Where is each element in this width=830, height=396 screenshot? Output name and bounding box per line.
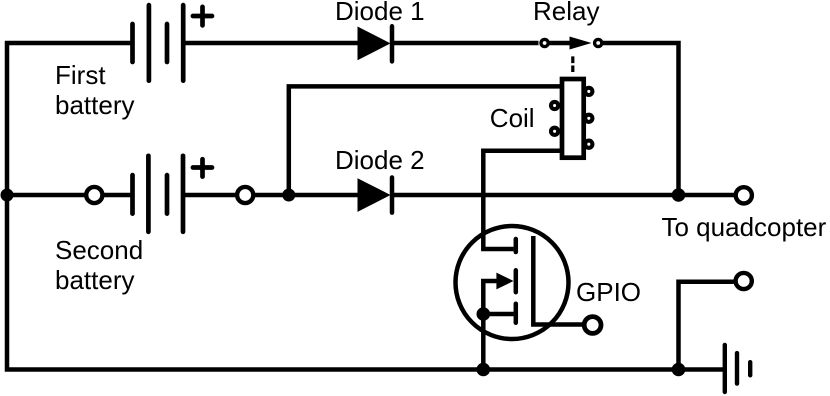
wire: lower right terminal branch <box>679 282 734 370</box>
svg-text:battery: battery <box>55 265 135 295</box>
wire: battery B2 to terminal circle <box>185 193 236 198</box>
relay switch contact left <box>541 39 548 46</box>
wire: terminal to diode D2 <box>255 193 358 198</box>
wire: battery B1 to diode D1 <box>185 41 358 46</box>
battery B2 (Second battery) <box>133 156 213 232</box>
svg-text:First: First <box>55 60 106 90</box>
svg-text:To quadcopter: To quadcopter <box>662 212 827 242</box>
terminal circle GPIO <box>584 317 601 334</box>
wire: branch up from node to coil top <box>289 86 560 195</box>
node: junction dot output <box>672 188 686 202</box>
wire: node to battery B2 terminal circle <box>7 193 85 198</box>
svg-text:Relay: Relay <box>533 0 599 26</box>
terminal circle lower right <box>736 273 752 289</box>
node: junction dot on bottom rail <box>477 363 491 377</box>
svg-text:Diode 1: Diode 1 <box>335 0 425 26</box>
svg-text:Coil: Coil <box>490 103 535 133</box>
svg-text:Second: Second <box>55 235 143 265</box>
wire: relay to right vertical down to node <box>603 43 679 195</box>
relay switch contact right <box>595 39 602 46</box>
wire: diode D2 to output node <box>392 193 734 198</box>
terminal circle left of battery B2 <box>86 187 102 203</box>
terminal circle To quadcopter <box>736 187 752 203</box>
transistor Q1 gate bar and lead <box>533 236 584 325</box>
svg-text:GPIO: GPIO <box>576 277 641 307</box>
transistor Q1 channel segments <box>514 239 519 323</box>
relay switch arrow <box>549 41 572 46</box>
battery B1 (First battery) <box>133 5 213 81</box>
relay actuation dashed link <box>571 56 574 72</box>
ground symbol <box>725 345 750 392</box>
wire: diode D1 to relay switch <box>392 41 539 46</box>
transistor Q1 source bar <box>483 312 513 317</box>
svg-text:battery: battery <box>55 90 135 120</box>
coil L1 loops <box>551 88 592 148</box>
wire: terminal to battery B2 <box>104 193 131 198</box>
wire: source down to ground rail <box>481 314 486 370</box>
wire: coil bottom to transistor drain <box>483 151 560 249</box>
node: source junction dot <box>477 307 491 321</box>
transistor Q1 body circle <box>456 226 569 339</box>
svg-text:Diode 2: Diode 2 <box>335 145 425 175</box>
transistor Q1 body arrow <box>483 281 500 314</box>
terminal circle right of battery B2 <box>237 187 253 203</box>
diode D1 <box>358 27 391 61</box>
node: junction dot battery branch <box>282 189 295 202</box>
node: junction dot left rail <box>1 189 14 202</box>
diode D2 <box>358 178 391 212</box>
coil L1 core <box>562 79 584 158</box>
wire: left vertical + top wire + bottom wire <box>7 43 723 370</box>
node: junction dot ground rail <box>672 363 686 377</box>
